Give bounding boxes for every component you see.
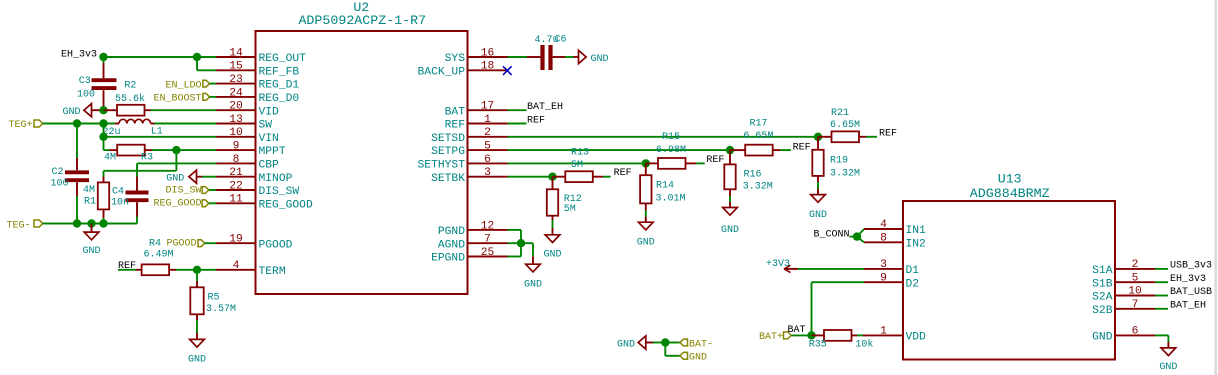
U2 pin 20 VID — [216, 101, 279, 119]
U2 pin 17 BAT — [445, 101, 508, 119]
svg-text:GND: GND — [524, 280, 542, 291]
wire SETHYST row — [508, 162, 646, 164]
power GND at MINOP — [166, 170, 216, 185]
power GND below U13 — [1159, 348, 1177, 373]
U13 pin 9 D2 — [864, 272, 919, 290]
svg-text:REF: REF — [445, 120, 465, 132]
U2 pin 12 PGND — [438, 220, 508, 238]
svg-text:IN1: IN1 — [906, 225, 927, 237]
power +3V3 — [766, 259, 798, 272]
node junction AGND — [517, 239, 525, 247]
node junction EH_3v3/C3 — [99, 53, 107, 61]
svg-text:PGOOD: PGOOD — [166, 238, 196, 249]
capacitor C6 — [508, 45, 574, 70]
svg-text:GND: GND — [1092, 332, 1113, 344]
U2 pin 9 MPPT — [216, 141, 286, 159]
label BAT_USB — [1170, 287, 1212, 298]
svg-text:DIS_SW: DIS_SW — [165, 185, 201, 196]
svg-text:BAT: BAT — [445, 106, 466, 118]
C2 labels — [51, 167, 69, 190]
svg-text:REG_D1: REG_D1 — [259, 80, 300, 92]
R14 labels — [656, 181, 686, 205]
svg-text:20: 20 — [229, 101, 243, 113]
R5 labels — [206, 292, 236, 315]
svg-text:VIN: VIN — [259, 133, 279, 145]
label EH_3v3 — [1170, 274, 1206, 285]
svg-text:5M: 5M — [571, 160, 583, 171]
svg-text:21: 21 — [229, 167, 243, 179]
U2 pin 22 DIS_SW — [216, 180, 299, 198]
resistor R2 — [104, 105, 217, 116]
wire +3V3 to D1 — [798, 268, 864, 270]
svg-text:REF: REF — [614, 168, 632, 179]
svg-text:2: 2 — [484, 127, 491, 139]
U13 pin 7 S2B — [1092, 299, 1155, 317]
svg-text:MPPT: MPPT — [259, 146, 286, 158]
U13 pin 2 S1A — [1092, 259, 1155, 277]
node junction TEG-/GND — [87, 219, 95, 227]
svg-text:R17: R17 — [750, 118, 768, 129]
svg-text:7: 7 — [484, 234, 491, 246]
resistor R19 — [812, 137, 823, 195]
node junction REG_OUT/REF_FB — [193, 53, 201, 61]
svg-text:5M: 5M — [564, 204, 576, 215]
U13 value ADG884BRMZ — [970, 186, 1050, 201]
U2 value ADP5092ACPZ-1-R7 — [298, 13, 426, 28]
svg-text:5: 5 — [1132, 272, 1139, 284]
wire SW-VIN vertical — [103, 124, 105, 137]
wire REF_FB branch — [197, 57, 216, 70]
svg-text:9: 9 — [233, 141, 240, 153]
U2 pin 14 REG_OUT — [216, 47, 306, 65]
svg-text:R16: R16 — [744, 170, 762, 181]
op-amp U2 ADP5092ACPZ-1-R7 body — [256, 31, 468, 294]
hierarchical label EN_LDO — [165, 80, 216, 91]
svg-text:24: 24 — [229, 87, 243, 99]
svg-text:EN_LDO: EN_LDO — [165, 80, 201, 91]
R35 labels — [809, 339, 874, 351]
svg-text:EPGND: EPGND — [431, 253, 465, 265]
resistor R15 — [646, 158, 705, 169]
U2 pin 13 SW — [216, 114, 272, 132]
svg-text:4M: 4M — [83, 185, 95, 196]
U13 pin 1 VDD — [864, 326, 926, 344]
wire B_CONN to IN1 — [857, 229, 864, 237]
U13 pin 8 IN2 — [864, 233, 926, 251]
svg-text:GND: GND — [721, 225, 739, 236]
svg-text:REG_D0: REG_D0 — [259, 93, 300, 105]
power GND below TEG- — [82, 224, 100, 258]
op-amp U13 ADG884BRMZ body — [903, 201, 1115, 360]
svg-text:3.57M: 3.57M — [206, 304, 236, 315]
U2 pin 19 PGOOD — [216, 234, 293, 252]
node junction BAT- — [661, 338, 669, 346]
label REF after R15 — [706, 155, 724, 166]
U2 pin 4 TERM — [216, 260, 286, 278]
svg-text:BACK_UP: BACK_UP — [418, 66, 466, 78]
svg-text:SETHYST: SETHYST — [418, 160, 466, 172]
svg-text:GND: GND — [62, 107, 80, 118]
wire VIN to R3 — [104, 137, 110, 150]
power GND below R16 — [721, 208, 739, 237]
svg-text:D1: D1 — [906, 265, 920, 277]
svg-text:AGND: AGND — [438, 239, 465, 251]
hierarchical label EN_BOOST — [153, 94, 216, 105]
node junction TEG-/R1 — [99, 219, 107, 227]
svg-text:ADG884BRMZ: ADG884BRMZ — [970, 186, 1050, 201]
wire TEG- row — [43, 223, 137, 225]
resistor R4 — [118, 264, 216, 275]
wire TEG+ to L1 — [43, 123, 115, 125]
wire REF pin1 — [508, 123, 527, 125]
hierarchical label GND sheet — [665, 343, 707, 364]
resistor R16 — [724, 150, 735, 207]
power GND below AGND — [524, 264, 542, 290]
svg-text:3: 3 — [484, 167, 491, 179]
svg-text:10: 10 — [1128, 286, 1142, 298]
node junction B_CONN — [853, 232, 861, 240]
svg-text:3.32M: 3.32M — [830, 168, 860, 179]
svg-text:BAT_EH: BAT_EH — [1170, 300, 1206, 311]
resistor R5 — [190, 270, 203, 340]
U2 pin 24 REG_D0 — [216, 87, 299, 105]
svg-text:D2: D2 — [906, 278, 920, 290]
node junction SW/VIN column — [99, 119, 107, 127]
hierarchical label TEG+ — [9, 120, 43, 131]
svg-text:1: 1 — [484, 114, 491, 126]
svg-text:REF: REF — [793, 143, 811, 154]
node junction TEG+/C2 — [73, 119, 81, 127]
hierarchical label TEG- — [7, 220, 43, 231]
svg-text:GND: GND — [637, 237, 655, 248]
svg-text:S2A: S2A — [1092, 292, 1113, 304]
resistor R12 — [547, 177, 558, 235]
label REF after R21 — [879, 129, 897, 140]
svg-text:3: 3 — [880, 259, 887, 271]
svg-text:B_CONN: B_CONN — [813, 229, 849, 240]
U13 pin 4 IN1 — [864, 219, 926, 237]
U13 reference designator — [998, 172, 1022, 187]
wire D2 branch — [812, 282, 865, 335]
svg-text:11: 11 — [229, 194, 243, 206]
hierarchical label PGOOD — [149, 238, 216, 249]
svg-text:9: 9 — [880, 272, 887, 284]
U13 pin 10 S2A — [1092, 286, 1155, 304]
label REF at TERM — [118, 261, 136, 272]
svg-text:C3: C3 — [79, 76, 91, 87]
svg-text:BAT: BAT — [788, 325, 806, 336]
capacitor C4 — [126, 163, 149, 223]
U2 pin 25 EPGND — [431, 247, 507, 265]
svg-text:C2: C2 — [51, 167, 63, 178]
R3 labels — [104, 152, 153, 163]
svg-text:S1B: S1B — [1092, 278, 1113, 290]
power GND at VID — [62, 104, 103, 119]
svg-text:REG_GOOD: REG_GOOD — [259, 199, 313, 211]
node junction VID/C3/R2 — [99, 106, 107, 114]
svg-text:10n: 10n — [111, 197, 129, 208]
svg-text:BAT-: BAT- — [689, 339, 713, 350]
svg-text:REF: REF — [527, 115, 545, 126]
svg-text:R21: R21 — [831, 108, 849, 119]
svg-text:DIS_SW: DIS_SW — [259, 186, 300, 198]
svg-text:22: 22 — [229, 180, 243, 192]
svg-text:1: 1 — [880, 326, 887, 338]
sheet border right edge — [1214, 0, 1217, 375]
svg-text:GND: GND — [689, 353, 707, 364]
svg-text:TEG-: TEG- — [7, 220, 31, 231]
svg-text:3.01M: 3.01M — [656, 193, 686, 204]
label B_CONN — [813, 229, 849, 240]
hierarchical label BAT+ — [759, 332, 791, 343]
svg-text:R14: R14 — [656, 181, 674, 192]
svg-text:EN_BOOST: EN_BOOST — [153, 94, 201, 105]
wire EH_3v3 to REG_OUT — [104, 56, 217, 58]
svg-text:GND: GND — [617, 339, 635, 350]
U2 pin 3 SETBK — [431, 167, 507, 185]
svg-text:GND: GND — [82, 246, 100, 257]
label EH_3v3 — [61, 50, 97, 61]
svg-text:USB_3v3: USB_3v3 — [1170, 261, 1212, 272]
svg-text:25: 25 — [481, 247, 495, 259]
svg-text:14: 14 — [229, 47, 243, 59]
resistor R21 — [818, 131, 877, 142]
C6 labels — [535, 34, 567, 46]
wire B_CONN to IN2 — [857, 237, 864, 243]
svg-text:TERM: TERM — [259, 266, 286, 278]
svg-text:GND: GND — [1159, 362, 1177, 373]
svg-text:7: 7 — [1132, 299, 1139, 311]
svg-text:100: 100 — [77, 89, 95, 100]
node junction SETSD/R19 — [814, 133, 822, 141]
svg-text:R13: R13 — [571, 147, 589, 158]
U13 pin 6 GND — [1092, 326, 1155, 344]
node junction TEG-/C2 — [73, 219, 81, 227]
svg-text:REF_FB: REF_FB — [259, 66, 300, 78]
svg-text:EH_3v3: EH_3v3 — [1170, 274, 1206, 285]
U13 pin 3 D1 — [864, 259, 919, 277]
svg-text:R19: R19 — [830, 156, 848, 167]
U13 pin 5 S1B — [1092, 272, 1155, 290]
resistor R35 — [812, 330, 865, 341]
svg-text:6.65M: 6.65M — [830, 120, 860, 131]
svg-text:MINOP: MINOP — [259, 173, 293, 185]
R2 labels — [115, 80, 145, 105]
svg-text:6: 6 — [484, 154, 491, 166]
svg-text:REG_OUT: REG_OUT — [259, 53, 307, 65]
C3 labels — [77, 76, 95, 100]
svg-text:12: 12 — [481, 220, 495, 232]
svg-text:2: 2 — [1132, 259, 1139, 271]
svg-text:S2B: S2B — [1092, 305, 1113, 317]
wire SETBK row — [508, 176, 553, 178]
svg-text:R4: R4 — [149, 238, 161, 249]
svg-text:PGOOD: PGOOD — [259, 239, 293, 251]
wire BAT — [508, 109, 527, 111]
svg-text:4M: 4M — [104, 152, 116, 163]
R17 labels — [743, 118, 773, 142]
svg-text:6.49M: 6.49M — [144, 249, 174, 260]
svg-text:19: 19 — [229, 234, 243, 246]
resistor R1 — [98, 177, 109, 224]
svg-text:GND: GND — [809, 210, 827, 221]
inductor L1 — [115, 119, 216, 123]
svg-text:PGND: PGND — [438, 226, 465, 238]
label REF pin1 — [527, 115, 545, 126]
svg-text:SYS: SYS — [445, 53, 466, 65]
U2 pin 2 SETSD — [431, 127, 507, 145]
svg-text:100: 100 — [51, 179, 69, 190]
svg-text:EH_3v3: EH_3v3 — [61, 50, 97, 61]
wire B_CONN stub — [850, 236, 858, 238]
node junction SETPG/R16 — [726, 146, 734, 154]
svg-text:VID: VID — [259, 106, 280, 118]
U2 pin 16 SYS — [445, 47, 508, 65]
svg-text:SETPG: SETPG — [431, 146, 465, 158]
U2 pin 23 REG_D1 — [216, 74, 299, 92]
wire AGND to GND — [532, 243, 534, 264]
power GND below R14 — [637, 222, 655, 248]
label BAT_EH — [1170, 300, 1206, 311]
svg-text:L1: L1 — [151, 126, 163, 137]
svg-text:R5: R5 — [208, 292, 220, 303]
label USB_3v3 — [1170, 261, 1212, 272]
node junction TERM/R5 — [193, 266, 201, 274]
svg-text:6.65M: 6.65M — [743, 131, 773, 142]
capacitor C2 — [65, 124, 89, 224]
hierarchical label BAT- — [665, 339, 713, 350]
resistor R3 — [110, 145, 216, 156]
wire MPPT branch down — [104, 150, 177, 176]
U2 pin 15 REF_FB — [216, 61, 299, 79]
svg-text:BAT_USB: BAT_USB — [1170, 287, 1212, 298]
svg-text:4: 4 — [880, 219, 887, 231]
R19 labels — [830, 156, 860, 180]
svg-text:REF: REF — [706, 155, 724, 166]
svg-text:6: 6 — [1132, 326, 1139, 338]
wire AGND row — [508, 242, 534, 244]
svg-text:C4: C4 — [112, 186, 124, 197]
power GND below R19 — [809, 195, 827, 221]
label REF after R17 — [793, 143, 811, 154]
svg-text:BAT+: BAT+ — [759, 332, 783, 343]
wire VIN row — [104, 136, 217, 138]
svg-text:GND: GND — [543, 250, 561, 261]
resistor R14 — [640, 163, 651, 222]
label BAT_EH — [527, 102, 563, 113]
svg-text:3.32M: 3.32M — [743, 182, 773, 193]
svg-text:8: 8 — [233, 154, 240, 166]
svg-text:8: 8 — [880, 233, 887, 245]
U2 pin 11 REG_GOOD — [216, 194, 313, 212]
svg-text:TEG+: TEG+ — [9, 120, 33, 131]
svg-text:R2: R2 — [124, 80, 136, 91]
L1 labels — [103, 126, 163, 138]
svg-text:S1A: S1A — [1092, 265, 1113, 277]
hierarchical label REG_GOOD — [153, 199, 216, 210]
svg-text:ADP5092ACPZ-1-R7: ADP5092ACPZ-1-R7 — [298, 13, 426, 28]
resistor R13 — [553, 171, 611, 182]
svg-text:10: 10 — [229, 127, 243, 139]
svg-text:16: 16 — [481, 47, 495, 59]
wire PGND branch — [508, 230, 522, 257]
svg-text:R35: R35 — [809, 340, 827, 351]
R12 labels — [564, 194, 582, 215]
no-connect X at BACK_UP — [503, 66, 512, 75]
node junction VIN — [99, 133, 107, 141]
svg-text:R3: R3 — [141, 152, 153, 163]
U2 reference designator — [353, 0, 369, 15]
svg-text:SETBK: SETBK — [431, 173, 465, 185]
C4 labels — [111, 186, 129, 208]
node junction VDD/D2 — [807, 331, 815, 339]
svg-text:13: 13 — [229, 114, 243, 126]
node junction SETHYST/R14 — [642, 159, 650, 167]
node junction MPPT — [172, 146, 180, 154]
R13 labels — [571, 147, 589, 171]
wire to label BAT_EH — [1155, 308, 1168, 310]
svg-text:U13: U13 — [998, 172, 1022, 187]
power GND at SYS — [574, 50, 609, 65]
svg-text:R1: R1 — [84, 197, 96, 208]
R21 labels — [830, 108, 860, 131]
svg-text:6.98M: 6.98M — [656, 145, 686, 156]
svg-text:SETSD: SETSD — [431, 133, 465, 145]
label BAT — [788, 325, 806, 336]
resistor R17 — [730, 145, 791, 156]
R1 labels — [83, 185, 96, 208]
wire to label USB_3v3 — [1155, 268, 1168, 270]
svg-text:VDD: VDD — [906, 332, 927, 344]
svg-text:SW: SW — [259, 120, 273, 132]
power GND at BAT- — [617, 336, 665, 351]
svg-text:CBP: CBP — [259, 160, 280, 172]
R4 value — [144, 249, 174, 260]
wire to label EH_3v3 — [1155, 281, 1168, 283]
U2 pin 10 VIN — [216, 127, 279, 145]
svg-text:REF: REF — [879, 129, 897, 140]
svg-text:15: 15 — [229, 61, 243, 73]
U2 pin 1 REF — [445, 114, 508, 132]
svg-text:10k: 10k — [855, 339, 873, 351]
wire BAT+ to R35 — [791, 334, 811, 336]
R16 labels — [743, 170, 773, 193]
power GND below R5 — [188, 339, 206, 365]
U2 pin 21 MINOP — [216, 167, 293, 185]
label REF after R13 — [614, 168, 632, 179]
power GND below R12 — [543, 235, 561, 261]
U2 pin 6 SETHYST — [418, 154, 508, 172]
svg-text:R15: R15 — [662, 132, 680, 143]
hierarchical label DIS_SW — [165, 185, 216, 196]
svg-text:18: 18 — [481, 61, 495, 73]
svg-text:GND: GND — [591, 54, 609, 65]
U2 pin 7 AGND — [438, 234, 508, 252]
svg-text:IN2: IN2 — [906, 238, 926, 250]
U2 pin 5 SETPG — [431, 141, 507, 159]
wire SETSD row — [508, 136, 819, 138]
svg-text:C6: C6 — [555, 34, 567, 45]
svg-text:23: 23 — [229, 74, 243, 86]
wire to label BAT_USB — [1155, 295, 1168, 297]
svg-text:GND: GND — [188, 354, 206, 365]
wire U13 GND — [1155, 335, 1168, 348]
wire CBP row — [137, 162, 216, 164]
wire SETPG row — [508, 149, 731, 151]
svg-text:REG_GOOD: REG_GOOD — [153, 199, 201, 210]
U2 pin 18 BACK_UP — [418, 61, 508, 79]
svg-text:4: 4 — [233, 260, 240, 272]
